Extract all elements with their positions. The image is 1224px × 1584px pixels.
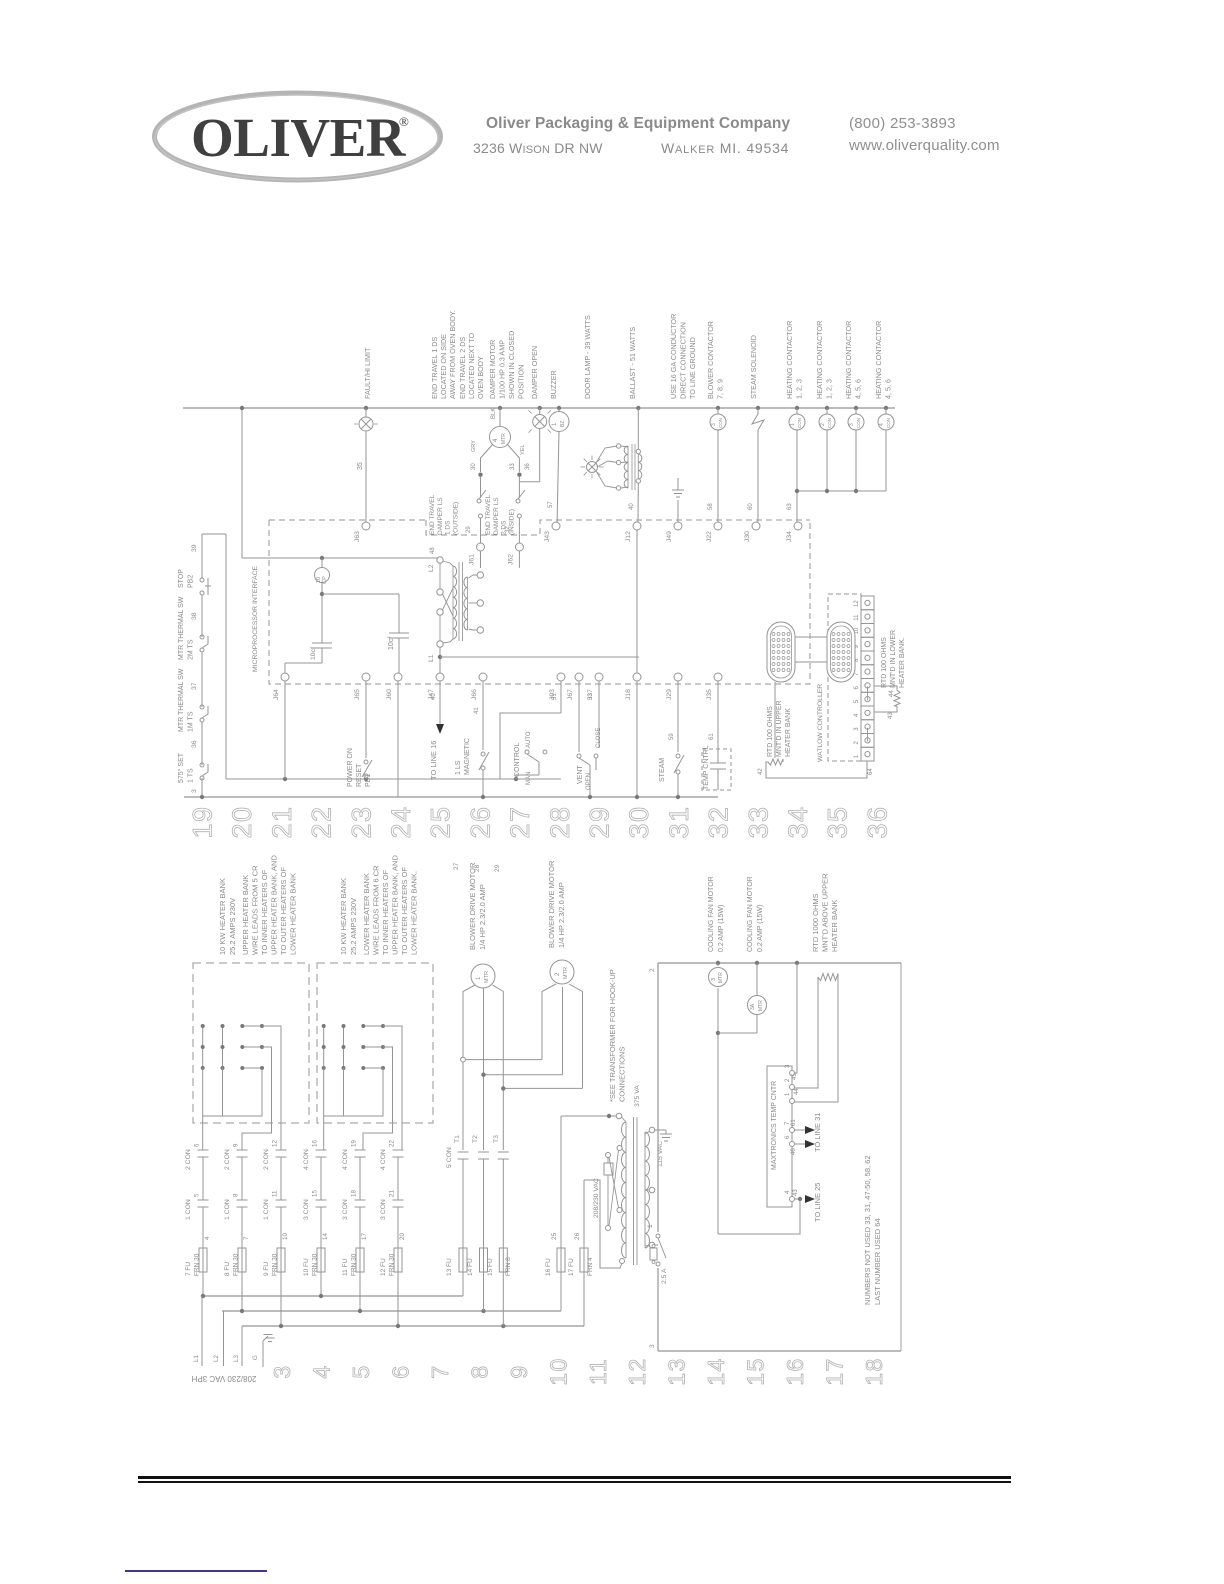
svg-text:2.5 A: 2.5 A: [661, 1268, 668, 1284]
svg-text:6: 6: [194, 1143, 201, 1147]
svg-text:J35: J35: [706, 689, 713, 700]
svg-text:MTR: MTR: [758, 1000, 764, 1011]
svg-text:2: 2: [649, 968, 656, 972]
svg-text:7: 7: [427, 1364, 453, 1378]
svg-text:33: 33: [743, 805, 773, 838]
svg-text:14 FU: 14 FU: [467, 1258, 474, 1276]
svg-text:53: 53: [588, 693, 594, 700]
svg-text:4: 4: [308, 1364, 334, 1378]
svg-text:J49: J49: [666, 531, 673, 542]
svg-text:7 FU: 7 FU: [185, 1262, 192, 1276]
svg-text:TO LINE 16: TO LINE 16: [429, 741, 438, 780]
svg-text:9: 9: [233, 1143, 240, 1147]
svg-text:J67: J67: [567, 689, 574, 700]
svg-text:10: 10: [545, 1357, 571, 1386]
svg-text:3: 3: [785, 1064, 791, 1068]
svg-text:17: 17: [822, 1357, 848, 1386]
svg-text:5: 5: [194, 1193, 201, 1197]
svg-text:MTR: MTR: [563, 967, 569, 979]
svg-text:MNT'D IN LOWER: MNT'D IN LOWER: [890, 630, 897, 688]
svg-text:1, 2, 3: 1, 2, 3: [825, 379, 834, 399]
svg-text:26: 26: [574, 1232, 581, 1240]
svg-text:41: 41: [474, 707, 480, 714]
svg-text:1 DS: 1 DS: [445, 520, 452, 535]
svg-text:FRN 30: FRN 30: [194, 1253, 201, 1276]
svg-text:22: 22: [389, 1140, 396, 1147]
svg-text:7: 7: [243, 1236, 250, 1240]
svg-text:FRN 30: FRN 30: [233, 1253, 240, 1276]
svg-text:TO LINE GROUND: TO LINE GROUND: [688, 337, 697, 399]
svg-text:2M TS: 2M TS: [188, 639, 195, 660]
svg-text:60: 60: [748, 503, 754, 510]
svg-text:7: 7: [854, 672, 860, 676]
svg-text:MTR THERMAL SW: MTR THERMAL SW: [178, 596, 185, 660]
svg-text:3A: 3A: [750, 1003, 756, 1010]
svg-text:21: 21: [267, 805, 297, 838]
svg-text:AWAY FROM OVEN BODY.: AWAY FROM OVEN BODY.: [448, 310, 457, 399]
svg-text:T2: T2: [472, 1135, 479, 1143]
svg-text:GRY: GRY: [471, 440, 477, 452]
svg-text:40: 40: [629, 503, 635, 510]
svg-text:2 CON: 2 CON: [185, 1149, 192, 1170]
svg-text:3: 3: [711, 978, 717, 981]
svg-text:375 VA: 375 VA: [634, 1085, 641, 1107]
svg-text:29: 29: [494, 864, 501, 872]
svg-text:DAMPER LS: DAMPER LS: [493, 497, 500, 535]
svg-text:4 CON: 4 CON: [342, 1149, 349, 1170]
svg-text:15: 15: [743, 1357, 769, 1386]
svg-text:33: 33: [510, 463, 516, 470]
svg-text:15: 15: [312, 1190, 319, 1197]
svg-text:5: 5: [854, 699, 860, 703]
svg-text:9: 9: [506, 1364, 532, 1378]
svg-text:COOLING FAN MOTOR: COOLING FAN MOTOR: [747, 876, 754, 952]
svg-text:DOOR LAMP - 39 WATTS: DOOR LAMP - 39 WATTS: [583, 315, 592, 399]
svg-text:10cf: 10cf: [388, 637, 395, 650]
svg-text:FRN 30: FRN 30: [389, 1253, 396, 1276]
svg-text:58: 58: [708, 503, 714, 510]
svg-text:END TRAVEL: END TRAVEL: [485, 494, 492, 535]
svg-text:61: 61: [791, 1119, 797, 1126]
svg-text:6: 6: [785, 1135, 791, 1139]
svg-text:CLOSE: CLOSE: [596, 728, 602, 748]
svg-text:POWER ON: POWER ON: [347, 748, 354, 787]
svg-text:44: 44: [889, 690, 895, 697]
svg-text:23: 23: [346, 805, 376, 838]
svg-text:7, 8, 9: 7, 8, 9: [716, 379, 725, 399]
svg-text:2: 2: [854, 741, 860, 745]
svg-text:WIRE LEADS FROM 5 CR: WIRE LEADS FROM 5 CR: [251, 865, 260, 955]
svg-text:4: 4: [879, 423, 885, 426]
svg-text:YEL: YEL: [520, 445, 526, 455]
svg-text:L1: L1: [193, 1355, 200, 1362]
svg-text:30: 30: [624, 805, 654, 838]
svg-text:FRN 30: FRN 30: [272, 1253, 279, 1276]
svg-text:J64: J64: [273, 689, 280, 700]
svg-text:4, 5, 6: 4, 5, 6: [854, 379, 863, 399]
svg-text:21: 21: [389, 1190, 396, 1197]
svg-text:26: 26: [465, 805, 495, 838]
svg-text:17 FU: 17 FU: [568, 1258, 575, 1276]
svg-text:DIRECT CONNECTION: DIRECT CONNECTION: [679, 322, 688, 399]
svg-text:NUMBERS NOT USED 33, 31, 47-50: NUMBERS NOT USED 33, 31, 47-50, 58, 62: [863, 1155, 872, 1305]
svg-text:RTD 100 OHMS: RTD 100 OHMS: [881, 637, 888, 688]
svg-text:32: 32: [704, 805, 734, 838]
svg-text:LOCATED ON SIDE: LOCATED ON SIDE: [439, 334, 448, 399]
svg-text:MTR: MTR: [718, 972, 724, 983]
svg-text:39: 39: [191, 544, 198, 552]
svg-text:27: 27: [453, 862, 460, 870]
svg-text:LOWER HEATER BANK: LOWER HEATER BANK: [362, 873, 371, 955]
svg-text:10cf: 10cf: [310, 647, 317, 660]
svg-text:8 FU: 8 FU: [224, 1262, 231, 1276]
svg-text:END TRAVEL: END TRAVEL: [429, 494, 436, 535]
svg-text:WIRE LEADS FROM 6 CR: WIRE LEADS FROM 6 CR: [372, 865, 381, 955]
svg-text:BZ: BZ: [560, 421, 566, 427]
svg-text:CON: CON: [797, 418, 802, 428]
svg-text:MICROPROCESSOR INTERFACE: MICROPROCESSOR INTERFACE: [252, 565, 259, 672]
svg-text:12 FU: 12 FU: [380, 1258, 387, 1276]
svg-text:MTR: MTR: [501, 433, 507, 444]
svg-text:4: 4: [204, 1236, 211, 1240]
svg-text:24: 24: [386, 805, 416, 838]
svg-text:L2: L2: [428, 564, 435, 572]
svg-text:59: 59: [669, 733, 675, 740]
svg-text:PB2: PB2: [188, 575, 195, 588]
svg-text:10 KW HEATER BANK: 10 KW HEATER BANK: [218, 878, 227, 955]
svg-text:16: 16: [782, 1357, 808, 1386]
svg-text:LOWER HEATER BANK: LOWER HEATER BANK: [289, 873, 298, 955]
svg-text:1, 2, 3: 1, 2, 3: [795, 379, 804, 399]
svg-text:UPPER HEATER BANK, AND: UPPER HEATER BANK, AND: [270, 855, 279, 955]
svg-text:1: 1: [647, 1224, 654, 1228]
svg-text:37: 37: [191, 682, 198, 690]
svg-text:J34: J34: [786, 531, 793, 542]
svg-text:RTD 100 OHMS: RTD 100 OHMS: [767, 706, 774, 757]
svg-text:10 KW HEATER BANK: 10 KW HEATER BANK: [339, 878, 348, 955]
svg-text:COOLING FAN MOTOR: COOLING FAN MOTOR: [708, 876, 715, 952]
svg-text:*SEE TRANSFORMER FOR HOOK-UP: *SEE TRANSFORMER FOR HOOK-UP: [608, 969, 617, 1102]
svg-text:2 CON: 2 CON: [224, 1149, 231, 1170]
svg-text:11: 11: [854, 614, 860, 621]
svg-text:1: 1: [785, 1092, 791, 1096]
svg-text:1/100 HP 0.3 AMP: 1/100 HP 0.3 AMP: [498, 340, 507, 399]
svg-text:FAULT/HI LIMIT: FAULT/HI LIMIT: [363, 347, 372, 399]
svg-text:4 CON: 4 CON: [380, 1149, 387, 1170]
svg-text:11: 11: [272, 1190, 279, 1197]
svg-text:11 FU: 11 FU: [342, 1258, 349, 1276]
svg-text:TO OUTER HEATERS OF: TO OUTER HEATERS OF: [400, 867, 409, 955]
svg-text:48: 48: [430, 547, 436, 554]
svg-text:LAST NUMBER USED 64: LAST NUMBER USED 64: [873, 1218, 882, 1305]
svg-text:J66: J66: [471, 689, 478, 700]
svg-text:1 LS: 1 LS: [455, 760, 462, 775]
svg-text:BLK: BLK: [491, 408, 497, 419]
svg-text:CON: CON: [827, 418, 832, 428]
svg-text:1: 1: [854, 754, 860, 758]
svg-text:30: 30: [471, 463, 477, 470]
svg-text:3: 3: [711, 423, 717, 426]
svg-text:(INSIDE): (INSIDE): [508, 509, 515, 535]
svg-text:CONTROL: CONTROL: [514, 743, 521, 777]
svg-text:J29: J29: [666, 689, 673, 700]
svg-text:4, 5, 6: 4, 5, 6: [884, 379, 893, 399]
svg-text:MAXTRONICS TEMP CNTR: MAXTRONICS TEMP CNTR: [771, 1081, 778, 1170]
svg-text:45: 45: [792, 1073, 798, 1080]
svg-text:29: 29: [585, 805, 615, 838]
svg-text:CON: CON: [718, 418, 723, 428]
svg-text:1M TS: 1M TS: [188, 711, 195, 732]
svg-text:HEATING CONTACTOR: HEATING CONTACTOR: [785, 321, 794, 399]
svg-text:HEATER BANK.: HEATER BANK.: [899, 637, 906, 688]
svg-text:31: 31: [664, 805, 694, 838]
svg-text:USE 16 GA CONDUCTOR: USE 16 GA CONDUCTOR: [669, 314, 678, 399]
svg-text:J43: J43: [544, 531, 551, 542]
svg-text:6: 6: [387, 1364, 413, 1378]
svg-text:UPPER HEATER BANK, AND: UPPER HEATER BANK, AND: [391, 855, 400, 955]
svg-text:3 CON: 3 CON: [380, 1199, 387, 1220]
svg-text:TO LINE 31: TO LINE 31: [813, 1113, 822, 1152]
svg-text:36: 36: [862, 805, 892, 838]
svg-text:CON: CON: [856, 418, 861, 428]
svg-text:DAMPER LS: DAMPER LS: [437, 497, 444, 535]
svg-text:LOCATED NEXT TO: LOCATED NEXT TO: [467, 332, 476, 399]
svg-text:TO OUTER HEATERS OF: TO OUTER HEATERS OF: [279, 867, 288, 955]
svg-text:22: 22: [307, 805, 337, 838]
svg-text:BLOWER DRIVE MOTOR: BLOWER DRIVE MOTOR: [468, 862, 477, 950]
svg-text:BLOWER CONTACTOR: BLOWER CONTACTOR: [706, 321, 715, 399]
svg-text:63: 63: [787, 503, 793, 510]
svg-text:TO LINE 25: TO LINE 25: [813, 1183, 822, 1222]
svg-text:HEATING CONTACTOR: HEATING CONTACTOR: [844, 321, 853, 399]
svg-text:STEAM: STEAM: [659, 758, 666, 782]
svg-text:G: G: [252, 1355, 259, 1360]
svg-text:12: 12: [854, 600, 860, 607]
svg-text:TEMP CNTRL: TEMP CNTRL: [703, 745, 710, 790]
svg-text:(OUTSIDE): (OUTSIDE): [452, 502, 459, 535]
svg-text:1 CON: 1 CON: [263, 1199, 270, 1220]
svg-text:MAGNETIC: MAGNETIC: [464, 738, 471, 775]
svg-text:J65: J65: [354, 689, 361, 700]
svg-text:END TRAVEL 2 DS: END TRAVEL 2 DS: [458, 337, 467, 399]
svg-text:16: 16: [312, 1140, 319, 1147]
svg-text:TO INNER HEATERS OF: TO INNER HEATERS OF: [260, 869, 269, 955]
svg-text:HEATER BANK: HEATER BANK: [785, 708, 792, 757]
svg-text:FRN 30: FRN 30: [312, 1253, 319, 1276]
svg-text:TO INNER HEATERS OF: TO INNER HEATERS OF: [381, 869, 390, 955]
svg-text:46: 46: [791, 1148, 797, 1155]
svg-text:END TRAVEL 1 DS: END TRAVEL 1 DS: [430, 337, 439, 399]
svg-text:35: 35: [823, 805, 853, 838]
svg-text:15 FU: 15 FU: [487, 1258, 494, 1276]
svg-text:1 TS: 1 TS: [188, 768, 195, 783]
svg-text:J61: J61: [469, 554, 476, 565]
svg-text:WATLOW CONTROLLER: WATLOW CONTROLLER: [817, 684, 824, 762]
svg-text:64: 64: [868, 768, 874, 775]
svg-text:BALLAST - 51 WATTS: BALLAST - 51 WATTS: [628, 327, 637, 399]
svg-text:16 FU: 16 FU: [545, 1258, 552, 1276]
svg-text:1/4 HP 2.3/2.0 AMP: 1/4 HP 2.3/2.0 AMP: [478, 884, 487, 950]
svg-text:1 CON: 1 CON: [224, 1199, 231, 1220]
svg-text:8: 8: [466, 1364, 492, 1378]
svg-text:AUTO: AUTO: [526, 731, 532, 748]
svg-text:51: 51: [552, 693, 558, 700]
svg-text:3: 3: [849, 423, 855, 426]
svg-text:RTD 1000 OHMS: RTD 1000 OHMS: [811, 893, 820, 952]
svg-text:OVEN BODY: OVEN BODY: [476, 356, 485, 399]
svg-text:4: 4: [785, 1190, 791, 1194]
svg-text:1 CON: 1 CON: [185, 1199, 192, 1220]
svg-text:HEATING CONTACTOR: HEATING CONTACTOR: [815, 321, 824, 399]
svg-text:12: 12: [624, 1357, 650, 1386]
svg-text:34: 34: [783, 805, 813, 838]
svg-text:HEATER BANK: HEATER BANK: [830, 900, 839, 952]
svg-text:MTR THERMAL SW: MTR THERMAL SW: [178, 668, 185, 732]
svg-text:17: 17: [361, 1233, 368, 1240]
svg-text:DAMPER OPEN: DAMPER OPEN: [530, 346, 539, 399]
svg-text:J22: J22: [706, 531, 713, 542]
svg-text:8: 8: [233, 1193, 240, 1197]
svg-text:43: 43: [793, 1189, 799, 1196]
svg-text:2 DS: 2 DS: [501, 520, 508, 535]
svg-text:L3: L3: [233, 1355, 240, 1362]
svg-text:9 FU: 9 FU: [263, 1262, 270, 1276]
svg-text:20: 20: [227, 805, 257, 838]
svg-text:5: 5: [348, 1364, 374, 1378]
svg-text:1/4 HP 2.3/2.0 AMP: 1/4 HP 2.3/2.0 AMP: [557, 882, 566, 948]
svg-text:MNT'D ABOVE UPPER: MNT'D ABOVE UPPER: [821, 873, 830, 952]
svg-text:575° SET: 575° SET: [177, 752, 185, 783]
svg-text:L2: L2: [213, 1355, 220, 1362]
svg-text:43: 43: [888, 712, 894, 719]
svg-text:BUZZER: BUZZER: [549, 370, 558, 399]
svg-text:6: 6: [854, 686, 860, 690]
svg-text:40: 40: [431, 693, 437, 700]
svg-text:4 CON: 4 CON: [303, 1149, 310, 1170]
svg-text:J12: J12: [625, 531, 632, 542]
svg-text:FRN 30: FRN 30: [351, 1253, 358, 1276]
svg-text:57: 57: [548, 501, 554, 508]
svg-text:T3: T3: [493, 1135, 500, 1143]
svg-text:208/230 VAC: 208/230 VAC: [593, 1178, 600, 1218]
svg-text:CONNECTIONS: CONNECTIONS: [618, 1047, 627, 1102]
svg-text:STEAM SOLENOID: STEAM SOLENOID: [749, 335, 758, 399]
svg-text:29: 29: [466, 526, 472, 533]
svg-text:5 CON: 5 CON: [446, 1147, 453, 1168]
svg-text:0.2 AMP (15W): 0.2 AMP (15W): [718, 905, 725, 952]
svg-text:T1: T1: [454, 1135, 461, 1143]
svg-text:J60: J60: [386, 689, 393, 700]
svg-text:FRN 4: FRN 4: [587, 1257, 594, 1276]
svg-text:J18: J18: [625, 689, 632, 700]
svg-text:OPEN: OPEN: [586, 773, 592, 790]
svg-text:FRN 8: FRN 8: [505, 1257, 512, 1276]
svg-text:3: 3: [269, 1364, 295, 1378]
svg-text:42: 42: [758, 768, 764, 775]
svg-text:36: 36: [525, 463, 531, 470]
svg-text:208/230 VAC 3PH: 208/230 VAC 3PH: [191, 1374, 256, 1383]
svg-text:19: 19: [351, 1140, 358, 1147]
svg-text:19: 19: [188, 805, 218, 838]
svg-text:2: 2: [820, 423, 826, 426]
svg-text:3 CON: 3 CON: [342, 1199, 349, 1220]
svg-text:PB1: PB1: [365, 774, 372, 787]
svg-text:61: 61: [709, 733, 715, 740]
svg-text:18: 18: [861, 1357, 887, 1386]
svg-text:36: 36: [191, 740, 198, 748]
svg-text:J63: J63: [354, 531, 361, 542]
svg-text:3: 3: [854, 727, 860, 731]
svg-text:STOP: STOP: [178, 569, 185, 588]
svg-text:VENT: VENT: [577, 765, 584, 784]
svg-text:35: 35: [357, 462, 364, 470]
svg-text:25: 25: [426, 805, 456, 838]
svg-text:11: 11: [585, 1358, 611, 1385]
svg-text:2: 2: [785, 1078, 791, 1082]
svg-text:25: 25: [551, 1232, 558, 1240]
svg-text:10 FU: 10 FU: [303, 1258, 310, 1276]
svg-text:2 CON: 2 CON: [263, 1149, 270, 1170]
svg-text:3 CON: 3 CON: [303, 1199, 310, 1220]
svg-text:MAN: MAN: [526, 772, 532, 785]
svg-text:MTR: MTR: [484, 971, 490, 983]
svg-text:13: 13: [664, 1357, 690, 1386]
svg-text:0.2 AMP (15W): 0.2 AMP (15W): [757, 905, 764, 952]
svg-text:10: 10: [282, 1233, 289, 1240]
svg-text:RESET: RESET: [356, 763, 363, 787]
svg-text:MNT'D IN UPPER: MNT'D IN UPPER: [776, 700, 783, 757]
svg-text:25.2 AMPS 230V: 25.2 AMPS 230V: [349, 898, 358, 955]
svg-text:BLOWER DRIVE MOTOR: BLOWER DRIVE MOTOR: [547, 860, 556, 948]
svg-text:14: 14: [322, 1233, 329, 1240]
svg-text:UPPER HEATER BANK: UPPER HEATER BANK: [241, 875, 250, 955]
svg-text:14: 14: [703, 1357, 729, 1386]
svg-text:CON: CON: [886, 418, 891, 428]
svg-text:HEATING CONTACTOR: HEATING CONTACTOR: [874, 321, 883, 399]
svg-text:27: 27: [505, 805, 535, 838]
svg-text:J62: J62: [507, 554, 514, 565]
svg-text:12: 12: [272, 1140, 279, 1147]
svg-text:4: 4: [854, 713, 860, 717]
svg-text:LOWER HEATER BANK.: LOWER HEATER BANK.: [410, 871, 419, 955]
svg-text:DAMPER MOTOR: DAMPER MOTOR: [488, 340, 497, 399]
svg-text:1: 1: [790, 423, 796, 426]
svg-text:28: 28: [474, 864, 481, 872]
svg-text:44: 44: [794, 1088, 800, 1095]
svg-text:13 FU: 13 FU: [446, 1258, 453, 1276]
svg-text:38: 38: [191, 612, 198, 620]
svg-text:J30: J30: [744, 531, 751, 542]
svg-text:3: 3: [649, 1344, 656, 1348]
svg-text:28: 28: [545, 805, 575, 838]
svg-text:25.2 AMPS 230V: 25.2 AMPS 230V: [228, 898, 237, 955]
svg-text:18: 18: [351, 1190, 358, 1197]
svg-text:POSITION: POSITION: [517, 365, 526, 399]
svg-text:20: 20: [399, 1233, 406, 1240]
svg-text:SHOWN IN CLOSED: SHOWN IN CLOSED: [507, 331, 516, 399]
svg-text:L1: L1: [428, 654, 435, 662]
svg-text:CP: CP: [322, 576, 328, 584]
svg-text:3: 3: [191, 789, 198, 793]
